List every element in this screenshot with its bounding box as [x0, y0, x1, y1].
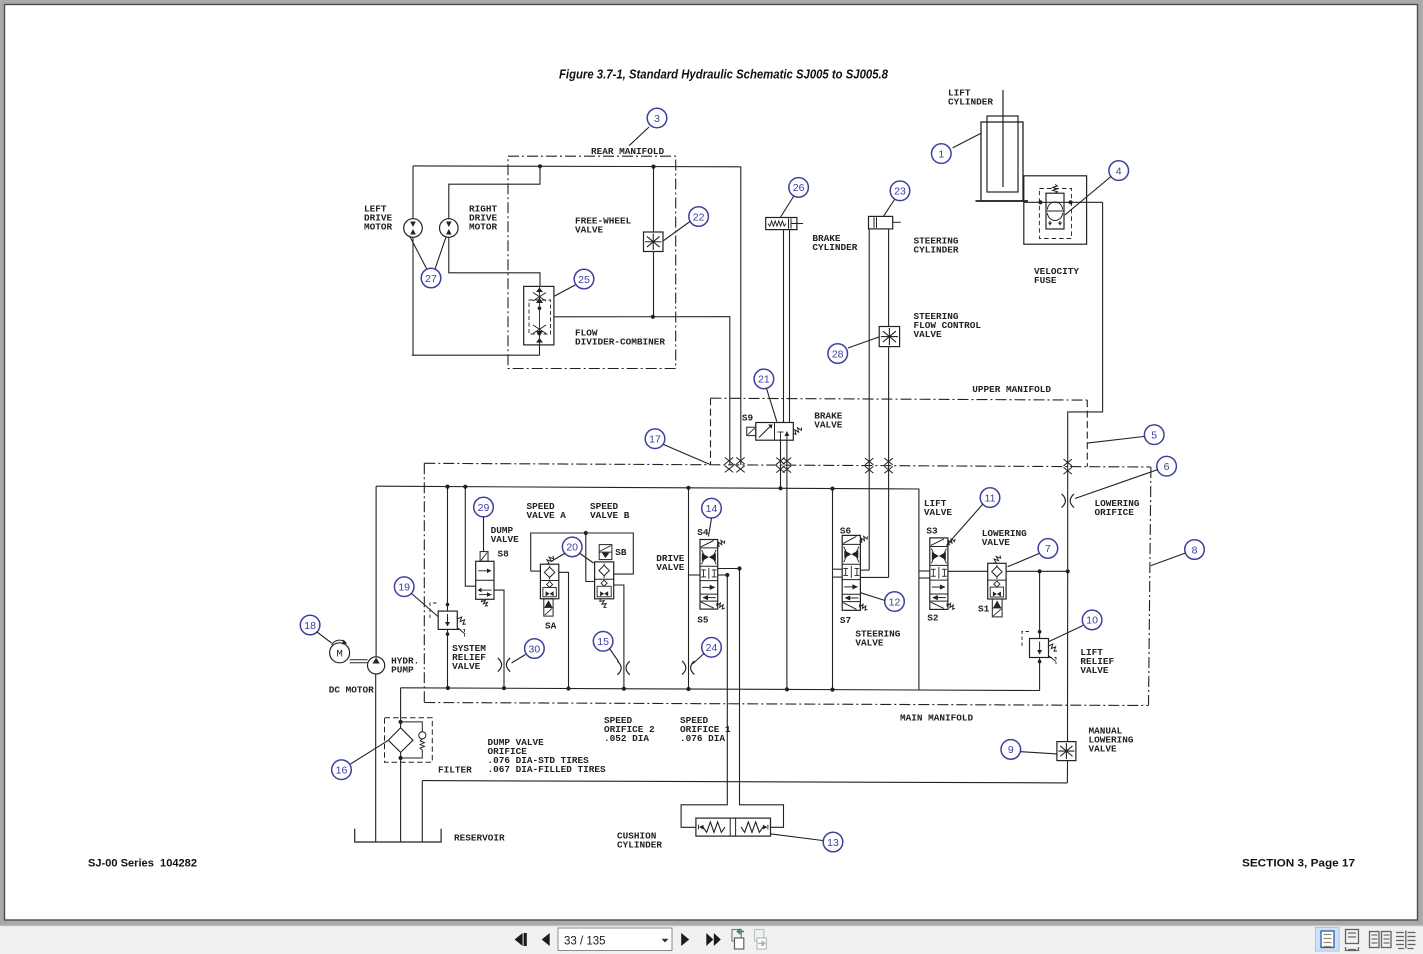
- svg-text:MOTOR: MOTOR: [364, 222, 393, 233]
- wire to system relief: [447, 487, 449, 611]
- flow divider-combiner (callout 25): [524, 286, 554, 345]
- callout 27: [421, 268, 441, 288]
- next-view icon (disabled): [755, 930, 764, 942]
- lowering orifice: [1062, 494, 1066, 508]
- svg-text:CYLINDER: CYLINDER: [914, 245, 959, 256]
- svg-text:VALVE: VALVE: [491, 534, 520, 545]
- lift valve S3/S2 (callout 11): [930, 538, 948, 610]
- callout 25: [574, 269, 594, 289]
- junction: [446, 603, 450, 607]
- callout 1: [932, 144, 952, 164]
- main manifold boundary left: [423, 463, 425, 702]
- leader to callout 29: [483, 517, 485, 552]
- svg-text:VALVE: VALVE: [924, 507, 953, 518]
- leader to callout 26: [780, 197, 793, 218]
- leader to callout 15: [610, 649, 619, 662]
- junction: [463, 485, 467, 489]
- callout 18: [300, 615, 320, 635]
- callout 21: [754, 369, 774, 389]
- wire V left: [410, 236, 428, 271]
- leader to callout 24: [693, 654, 705, 665]
- wire rear top: [413, 165, 741, 168]
- junction: [686, 687, 690, 691]
- callout 22: [689, 207, 709, 227]
- wire fuse drop: [1068, 202, 1103, 466]
- orifice 30: [498, 658, 502, 672]
- callout 3: [647, 108, 667, 128]
- svg-text:18: 18: [304, 620, 316, 632]
- svg-text:26: 26: [793, 182, 805, 194]
- svg-text:.076 DIA: .076 DIA: [680, 733, 725, 744]
- reservoir: [355, 829, 441, 842]
- svg-text:S8: S8: [498, 549, 510, 560]
- steering flow control valve (callout 28): [879, 327, 899, 347]
- junction: [686, 486, 690, 490]
- leader to callout 1: [953, 134, 981, 148]
- junction: [651, 315, 655, 319]
- wire lift valve right stub: [948, 570, 988, 572]
- svg-text:10: 10: [1086, 615, 1098, 627]
- boundary crossing: [865, 458, 873, 465]
- wire steering valve right stub upper: [860, 569, 869, 571]
- svg-text:S4: S4: [697, 527, 709, 538]
- wire lift valve left stub upper: [919, 570, 930, 572]
- wire cushion left: [681, 575, 727, 827]
- svg-text:5: 5: [1151, 430, 1157, 442]
- wire lift valve left stub lower: [919, 577, 930, 579]
- svg-text:CYLINDER: CYLINDER: [948, 97, 993, 108]
- callout 30: [525, 639, 545, 659]
- wire cushion right: [740, 569, 784, 828]
- wire steering valve right stub lower: [860, 576, 888, 578]
- svg-text:19: 19: [398, 582, 410, 594]
- wire SB out: [614, 585, 624, 689]
- wire rear top corner drop: [740, 167, 742, 465]
- wire to dump valve: [465, 487, 475, 587]
- svg-text:9: 9: [1008, 744, 1014, 756]
- wire SA out: [559, 572, 569, 688]
- lowering valve (callout 7): [988, 563, 1006, 599]
- leader to callout 19: [412, 594, 439, 617]
- callout 17: [645, 429, 665, 449]
- leader to callout 28: [848, 337, 879, 348]
- wire manual valve drop: [1066, 761, 1068, 783]
- wire tank return line: [422, 781, 1067, 783]
- callout 8: [1185, 540, 1205, 560]
- svg-text:Figure 3.7-1, Standard Hydraul: Figure 3.7-1, Standard Hydraulic Schemat…: [559, 67, 889, 82]
- leader to callout 4: [1065, 177, 1111, 215]
- svg-text:14: 14: [706, 503, 718, 515]
- upper manifold boundary left: [710, 398, 712, 465]
- layout icon two-page continuous: [1396, 932, 1404, 934]
- callout 9: [1001, 740, 1021, 760]
- svg-text:M: M: [336, 649, 342, 661]
- junction: [538, 164, 542, 168]
- svg-text:VALVE A: VALVE A: [527, 510, 567, 521]
- svg-text:13: 13: [827, 837, 839, 849]
- velocity fuse valve (callout 4): [1046, 193, 1064, 229]
- cushion cylinder (callout 13): [696, 818, 771, 836]
- wire steering valve left stub lower: [833, 576, 843, 578]
- callout 29: [474, 497, 494, 517]
- callout 26: [789, 178, 809, 198]
- svg-text:7: 7: [1045, 543, 1051, 555]
- wire lift cylinder to fuse: [1024, 201, 1103, 203]
- wire lift relief to return: [1039, 658, 1041, 691]
- junction: [725, 573, 729, 577]
- svg-text:DIVIDER-COMBINER: DIVIDER-COMBINER: [575, 337, 665, 348]
- svg-text:22: 22: [693, 211, 705, 223]
- leader to callout 30: [512, 655, 526, 664]
- rear manifold dash-dot enclosure: [508, 156, 676, 368]
- boundary crossing: [776, 458, 784, 465]
- callout 12: [885, 592, 905, 612]
- svg-text:S5: S5: [697, 615, 709, 626]
- svg-text:SA: SA: [545, 621, 557, 632]
- hydraulic pump: [368, 657, 385, 674]
- main manifold boundary right: [1149, 467, 1151, 706]
- page number box: [558, 928, 672, 951]
- wire V right: [435, 237, 447, 271]
- boundary crossing: [725, 457, 733, 464]
- junction: [399, 720, 403, 724]
- free-wheel valve (callout 22): [644, 232, 664, 252]
- wire dump valve out: [494, 590, 504, 688]
- junction: [830, 487, 834, 491]
- nav last-page button: [706, 933, 713, 946]
- boundary crossing: [884, 458, 892, 465]
- wire return to filter: [400, 688, 402, 728]
- velocity fuse enclosure: [1024, 176, 1087, 244]
- leader to callout 17: [664, 445, 710, 465]
- layout icon continuous: [1346, 930, 1359, 944]
- svg-text:VALVE: VALVE: [575, 225, 604, 236]
- svg-text:UPPER MANIFOLD: UPPER MANIFOLD: [972, 384, 1051, 395]
- junction: [651, 165, 655, 169]
- junction: [446, 686, 450, 690]
- callout 13: [823, 832, 843, 852]
- drive valve S4/S5 (callout 14): [700, 540, 718, 610]
- wire main pressure line: [376, 486, 919, 690]
- wire drive valve left: [688, 488, 690, 689]
- svg-text:RESERVOIR: RESERVOIR: [454, 833, 505, 844]
- junction: [737, 566, 741, 570]
- svg-text:ORIFICE: ORIFICE: [1095, 507, 1135, 518]
- junction: [785, 687, 789, 691]
- callout 24: [702, 638, 722, 658]
- svg-text:VALVE: VALVE: [914, 329, 943, 340]
- dc motor (callout 18): [330, 643, 350, 663]
- svg-text:11: 11: [985, 492, 996, 504]
- leader to callout 7: [1008, 554, 1039, 567]
- wire filter to reservoir: [400, 752, 402, 842]
- wire flow divider to bottom: [539, 345, 541, 355]
- junction: [778, 486, 782, 490]
- svg-text:VALVE: VALVE: [452, 661, 481, 672]
- leader to callout 14: [709, 518, 712, 537]
- wire flow divider output: [554, 317, 730, 465]
- svg-text:CYLINDER: CYLINDER: [617, 840, 662, 851]
- svg-text:27: 27: [425, 273, 437, 285]
- svg-text:21: 21: [758, 374, 770, 386]
- svg-text:33 / 135: 33 / 135: [564, 936, 606, 948]
- wire main return line: [401, 688, 1040, 691]
- junction: [830, 688, 834, 692]
- filter (callout 16): [385, 718, 433, 763]
- wire to manual lowering valve: [1067, 571, 1069, 741]
- boundary crossing: [783, 458, 791, 465]
- wire steering valve left: [832, 489, 834, 690]
- svg-text:S9: S9: [742, 413, 754, 424]
- leader to callout 10: [1049, 626, 1083, 642]
- svg-text:30: 30: [529, 643, 541, 655]
- leader to callout 8: [1151, 553, 1186, 566]
- wire steering cyl right line upper: [888, 229, 890, 327]
- wire steering cyl left line: [868, 229, 870, 570]
- svg-text:6: 6: [1164, 461, 1170, 473]
- speed valve SA (callout 20): [540, 564, 558, 599]
- junction: [1038, 660, 1042, 664]
- wire bracket to SB: [586, 533, 595, 582]
- right drive motor: [440, 219, 459, 238]
- leader to callout 3: [629, 127, 649, 146]
- svg-text:25: 25: [578, 274, 590, 286]
- svg-text:VALVE: VALVE: [855, 638, 884, 649]
- orifice 15: [617, 661, 621, 675]
- wire rear bottom: [412, 354, 540, 356]
- wire drive valve right stub upper: [718, 568, 740, 570]
- svg-text:SB: SB: [615, 547, 627, 558]
- svg-text:4: 4: [1116, 165, 1122, 177]
- boundary crossing: [736, 457, 744, 464]
- leader to callout 20 (left): [551, 554, 565, 562]
- callout 16: [332, 760, 352, 780]
- steering cylinder (callout 23): [869, 216, 893, 229]
- svg-text:SECTION 3, Page 17: SECTION 3, Page 17: [1242, 858, 1355, 870]
- leader to callout 18: [317, 632, 332, 643]
- boundary crossing: [1064, 459, 1072, 466]
- upper manifold boundary right: [1086, 400, 1088, 467]
- svg-text:17: 17: [649, 434, 661, 446]
- junction: [1038, 630, 1042, 634]
- left drive motor: [404, 219, 423, 238]
- svg-text:S6: S6: [840, 525, 852, 536]
- svg-text:VALVE B: VALVE B: [590, 510, 630, 521]
- leader to callout 21: [767, 389, 777, 422]
- svg-text:.052 DIA: .052 DIA: [604, 733, 649, 744]
- main manifold boundary top (callout 17): [424, 463, 1151, 467]
- svg-text:VALVE: VALVE: [1080, 665, 1109, 676]
- wire brake valve left drop: [780, 440, 782, 488]
- manual lowering valve (callout 9): [1057, 742, 1076, 761]
- svg-text:S1: S1: [978, 604, 990, 615]
- wire brake valve right drop: [786, 440, 788, 689]
- svg-text:VALVE: VALVE: [656, 562, 685, 573]
- brake valve S9 (callout 21): [756, 423, 794, 441]
- junction: [502, 686, 506, 690]
- svg-text:PUMP: PUMP: [391, 665, 414, 676]
- nav previous-page button: [542, 933, 550, 946]
- steering valve S6/S7 (callout 12): [842, 535, 860, 610]
- callout 15: [593, 632, 613, 652]
- svg-text:.067 DIA-FILLED TIRES: .067 DIA-FILLED TIRES: [488, 764, 607, 775]
- leader to callout 25: [554, 285, 575, 296]
- leader to callout 9: [1021, 752, 1057, 754]
- wire lowering orifice drop: [1067, 467, 1069, 572]
- junction: [622, 687, 626, 691]
- wire system relief to return: [447, 629, 449, 688]
- svg-text:REAR MANIFOLD: REAR MANIFOLD: [591, 146, 665, 157]
- svg-text:S3: S3: [926, 526, 938, 537]
- svg-text:20: 20: [566, 542, 578, 554]
- callout 5: [1144, 425, 1164, 445]
- wire right motor top: [449, 166, 540, 218]
- leader to callout 11: [947, 504, 984, 546]
- leader to callout 20 (right): [580, 554, 594, 564]
- leader to callout 16: [351, 741, 389, 765]
- svg-text:24: 24: [706, 642, 718, 654]
- svg-text:DC MOTOR: DC MOTOR: [329, 685, 374, 696]
- junction: [566, 686, 570, 690]
- wire drive valve right stub lower: [718, 574, 728, 576]
- upper manifold boundary top: [711, 398, 1088, 400]
- leader to callout 5: [1087, 437, 1144, 444]
- previous-view icon: [732, 930, 741, 942]
- svg-text:FILTER: FILTER: [438, 765, 472, 776]
- leader to callout 22: [663, 222, 690, 242]
- callout 28: [828, 344, 848, 364]
- callout 14: [702, 498, 722, 518]
- callout 19: [394, 577, 414, 597]
- junction: [1038, 569, 1042, 573]
- lift relief valve (callout 10): [1030, 639, 1049, 658]
- junction: [445, 485, 449, 489]
- lift cylinder (callout 1): [981, 122, 1023, 201]
- callout 7: [1038, 539, 1058, 559]
- system relief valve (callout 19): [438, 611, 457, 629]
- wire bracket to SA: [531, 570, 541, 572]
- callout 20: [562, 537, 582, 557]
- dump valve S8 (callout 29): [476, 561, 494, 599]
- leader to callout 23: [883, 200, 894, 217]
- svg-text:FUSE: FUSE: [1034, 275, 1057, 286]
- svg-text:MAIN MANIFOLD: MAIN MANIFOLD: [900, 713, 974, 724]
- leader to callout 6: [1075, 470, 1158, 499]
- speed valve SB: [595, 562, 614, 599]
- wire pump suction: [375, 674, 377, 842]
- svg-text:S2: S2: [927, 612, 939, 623]
- svg-text:3: 3: [654, 113, 660, 125]
- junction: [584, 531, 588, 535]
- junction: [446, 632, 450, 636]
- wire lowering valve out: [1006, 570, 1068, 572]
- toolbar background: [0, 926, 1423, 954]
- wire left motor drop: [412, 166, 414, 355]
- svg-text:VALVE: VALVE: [814, 420, 843, 431]
- svg-text:8: 8: [1192, 544, 1198, 556]
- svg-text:29: 29: [478, 502, 490, 514]
- callout 4: [1109, 161, 1129, 181]
- wire right motor to flow divider: [449, 237, 540, 286]
- svg-text:1: 1: [938, 148, 944, 160]
- svg-text:VALVE: VALVE: [1089, 744, 1118, 755]
- leader to callout 13: [771, 834, 823, 841]
- svg-text:S7: S7: [840, 615, 851, 626]
- layout icon two-page: [1370, 932, 1380, 948]
- svg-text:SJ-00 Series 104282: SJ-00 Series 104282: [88, 858, 197, 870]
- wire steering valve left stub upper: [833, 568, 843, 570]
- svg-text:VALVE: VALVE: [982, 537, 1011, 548]
- orifice 24: [682, 661, 686, 675]
- main manifold boundary bottom: [424, 703, 1148, 706]
- callout 10: [1082, 610, 1102, 630]
- svg-text:12: 12: [889, 596, 901, 608]
- wire return line to reservoir: [421, 781, 423, 842]
- wire brake cylinder lines: [783, 230, 785, 423]
- callout 23: [890, 181, 910, 201]
- wire free-wheel upper: [653, 167, 655, 232]
- wire pump to pressure line: [375, 486, 377, 657]
- nav first-page button: [515, 933, 523, 946]
- junction: [1069, 200, 1073, 204]
- junction: [1066, 569, 1070, 573]
- nav next-page button: [681, 933, 689, 946]
- wire to lift relief: [1039, 571, 1041, 638]
- wire steering cyl right line lower: [888, 347, 890, 578]
- svg-text:CYLINDER: CYLINDER: [812, 242, 857, 253]
- svg-text:23: 23: [894, 186, 906, 198]
- wire drive valve left stub: [689, 574, 701, 576]
- svg-text:15: 15: [597, 636, 609, 648]
- leader to callout 12: [860, 593, 885, 601]
- brake cylinder (callout 26): [766, 218, 797, 230]
- callout 6: [1157, 456, 1177, 476]
- svg-text:28: 28: [832, 348, 844, 360]
- callout 11: [980, 488, 1000, 508]
- wire speed bracket: [531, 533, 634, 574]
- wire free-wheel lower: [653, 252, 655, 317]
- svg-text:MOTOR: MOTOR: [469, 222, 498, 233]
- junction: [1038, 200, 1042, 204]
- svg-text:16: 16: [336, 765, 348, 777]
- layout icon single-page (active): [1316, 928, 1340, 952]
